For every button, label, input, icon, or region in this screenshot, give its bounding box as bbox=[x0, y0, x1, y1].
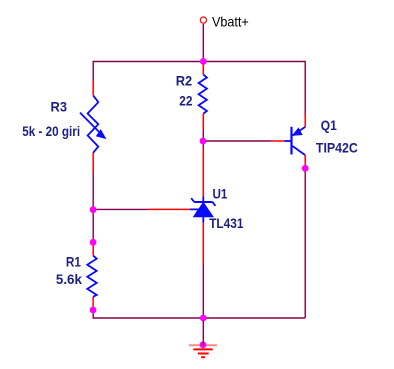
svg-text:TL431: TL431 bbox=[209, 216, 244, 231]
svg-text:Q1: Q1 bbox=[321, 118, 337, 133]
junction R1 top bbox=[90, 239, 97, 246]
resistor R1 bbox=[87, 256, 96, 297]
resistor R2 bbox=[199, 75, 207, 114]
wire ref branch bbox=[93, 208, 148, 210]
wire R1 top pin red bbox=[92, 242, 94, 256]
shunt regulator U1 bbox=[190, 197, 216, 223]
wire right vertical lower bbox=[304, 168, 306, 318]
wire U1 anode red bbox=[202, 223, 204, 264]
junction R2 base branch bbox=[200, 138, 207, 145]
terminal Vbatt+ bbox=[200, 17, 206, 23]
potentiometer R3 bbox=[88, 96, 99, 153]
wire R2 bottom pin red bbox=[202, 114, 204, 130]
wire Vbatt to top bus bbox=[202, 24, 204, 62]
svg-text:U1: U1 bbox=[213, 187, 228, 202]
ground bbox=[189, 345, 217, 357]
wire Q1 emitter pin red bbox=[304, 114, 306, 127]
wire junction to U1 bbox=[202, 141, 204, 149]
junction Q1 collector bbox=[302, 165, 309, 172]
wire right vertical upper bbox=[304, 61, 306, 114]
junction R1 bottom bbox=[90, 307, 97, 314]
svg-text:22: 22 bbox=[179, 94, 193, 109]
svg-text:5.6k: 5.6k bbox=[56, 272, 82, 287]
junction bottom bus bbox=[200, 315, 207, 322]
transistor Q1 bbox=[285, 127, 306, 155]
svg-text:5k - 20 giri: 5k - 20 giri bbox=[22, 124, 80, 139]
wire R1 bottom pin red bbox=[92, 297, 94, 310]
svg-text:Vbatt+: Vbatt+ bbox=[212, 15, 249, 30]
junction top bus R2 bbox=[200, 58, 207, 65]
wire base branch bbox=[203, 140, 271, 142]
svg-text:R3: R3 bbox=[51, 99, 68, 114]
wire R3 bottom pin red bbox=[92, 153, 94, 172]
wire R2 bottom to junction bbox=[202, 130, 204, 142]
wire left vertical mid segment bbox=[92, 172, 94, 242]
wire left vertical top segment bbox=[92, 61, 94, 80]
svg-text:TIP42C: TIP42C bbox=[316, 141, 358, 156]
wire R3 top pin red bbox=[92, 80, 94, 96]
junction ref branch bbox=[90, 206, 97, 213]
wire ref pin red bbox=[148, 208, 190, 210]
wire U1 cathode red bbox=[202, 149, 204, 197]
junction ground bbox=[200, 341, 207, 348]
wire U1 anode to bottom bus bbox=[202, 264, 204, 319]
svg-text:R2: R2 bbox=[176, 74, 193, 89]
wire ground stem bbox=[202, 321, 204, 346]
wire top bus bbox=[93, 61, 305, 63]
wire Q1 collector pin red bbox=[304, 155, 306, 168]
potentiometer R3 arrow bbox=[80, 113, 105, 139]
wire base pin red bbox=[271, 140, 285, 142]
wire R2 top pin red bbox=[202, 62, 204, 75]
svg-text:R1: R1 bbox=[66, 255, 81, 270]
wire left vertical bottom segment bbox=[93, 310, 305, 318]
